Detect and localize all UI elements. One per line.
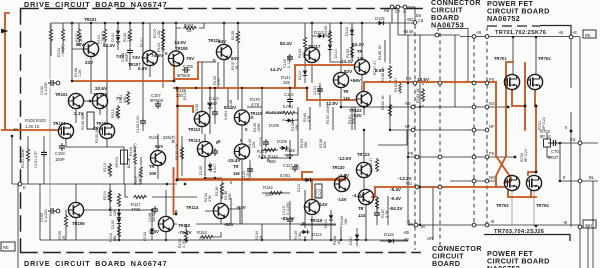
wire R128 col <box>185 224 187 243</box>
resistor R151 <box>183 26 197 29</box>
pin C102 <box>56 81 60 85</box>
capacitor C117 <box>292 164 298 172</box>
wire C117 row <box>290 167 300 169</box>
transistor TR122 <box>356 91 371 106</box>
svg-text:680: 680 <box>269 159 277 164</box>
wire D103 col <box>151 210 153 240</box>
fet board top dashed <box>487 25 540 27</box>
pin NG x440 <box>438 185 442 189</box>
svg-text:0.001: 0.001 <box>280 173 291 178</box>
svg-text:TR703: TR703 <box>496 203 509 208</box>
pin PS x474 <box>472 81 476 85</box>
resistor R143 <box>282 111 296 114</box>
diode D108 <box>286 118 295 122</box>
svg-text:R166 1K: R166 1K <box>381 67 385 82</box>
transistor TR101 <box>83 41 98 56</box>
svg-text:TR702: TR702 <box>538 56 551 61</box>
svg-text:56: 56 <box>421 224 426 229</box>
transistor TR112 <box>194 111 209 126</box>
wire E row y184 <box>12 183 177 185</box>
pin NS x413 <box>411 105 415 109</box>
wire R117 corner <box>125 184 197 197</box>
resistor R136 <box>220 182 223 196</box>
svg-text:D110: D110 <box>298 71 302 80</box>
svg-text:0: 0 <box>240 138 243 143</box>
svg-text:1K: 1K <box>259 235 263 240</box>
svg-text:23V: 23V <box>85 60 94 65</box>
svg-text:D115: D115 <box>324 219 328 228</box>
wire NG row orange <box>375 186 506 188</box>
resistor R167 <box>375 196 378 210</box>
svg-text:TR104: TR104 <box>53 121 66 126</box>
svg-text:TR117: TR117 <box>308 44 321 49</box>
wire R168 col <box>384 40 386 62</box>
wire TR107 leads <box>149 23 151 77</box>
svg-text:116: 116 <box>233 171 240 176</box>
svg-text:R102 R103: R102 R103 <box>25 118 46 123</box>
svg-text:R143 680: R143 680 <box>266 110 284 115</box>
resistor R101 <box>26 148 29 162</box>
svg-text:22: 22 <box>199 236 204 241</box>
wire TR101 leads <box>72 23 91 94</box>
svg-text:R142: R142 <box>263 185 274 190</box>
diode D105 <box>208 163 212 172</box>
svg-text:6P/500: 6P/500 <box>150 98 164 103</box>
svg-text:NA06752: NA06752 <box>487 264 520 268</box>
capacitor C116 <box>287 97 293 105</box>
diode D112 <box>317 34 326 38</box>
svg-text:5P 0.22: 5P 0.22 <box>542 117 546 130</box>
dashed col x440 <box>439 33 441 250</box>
wire pins col x405 <box>404 7 406 35</box>
svg-text:47K: 47K <box>307 115 311 122</box>
wire x525 col <box>524 63 526 130</box>
pin NS x474 <box>472 105 476 109</box>
wire pins col x392 <box>391 7 393 23</box>
wire R152 row <box>214 232 221 237</box>
svg-text:TR: TR <box>233 164 239 169</box>
diode D114 <box>328 43 332 52</box>
svg-text:5P/500: 5P/500 <box>177 73 191 78</box>
svg-text:R167 47: R167 47 <box>373 61 377 75</box>
wire TR115 col <box>241 88 243 224</box>
diode D115 <box>329 213 333 222</box>
svg-text:R136: R136 <box>215 187 219 196</box>
capacitor C121 <box>317 86 323 94</box>
svg-text:0.15: 0.15 <box>246 173 250 180</box>
svg-text:TR703,704:2SJ26: TR703,704:2SJ26 <box>494 229 544 235</box>
svg-text:C105 0.01: C105 0.01 <box>136 115 140 133</box>
svg-text:+B: +B <box>476 30 481 35</box>
svg-text:R165 47: R165 47 <box>369 158 373 172</box>
svg-text:22K: 22K <box>113 209 117 216</box>
pin PS x487 <box>485 81 489 85</box>
wire TR110 collector branch <box>173 168 175 214</box>
resistor R113 <box>108 163 111 177</box>
wire x408 col <box>407 35 409 225</box>
wire TR103 col <box>100 44 107 123</box>
wire R145 col <box>297 107 299 130</box>
svg-text:R152: R152 <box>197 230 208 235</box>
svg-text:6.8(QF): 6.8(QF) <box>138 171 142 185</box>
wire gray col x50 <box>49 23 51 207</box>
resistor R116 <box>117 224 120 238</box>
svg-text:0: 0 <box>218 139 221 144</box>
svg-text:R164 1K: R164 1K <box>416 88 420 103</box>
transistor TR115 <box>234 110 249 125</box>
wire D104 col <box>209 88 211 134</box>
svg-text:NF: NF <box>405 124 411 129</box>
svg-text:RE: RE <box>585 33 591 38</box>
svg-text:82K: 82K <box>323 141 327 148</box>
svg-text:74.6V: 74.6V <box>151 53 164 58</box>
svg-text:100P: 100P <box>55 157 65 162</box>
resistor R155 <box>328 30 331 44</box>
svg-text:7.5K: 7.5K <box>298 232 302 240</box>
wire R167b col <box>387 196 389 225</box>
capacitor C103 <box>48 208 56 214</box>
trimmer VR101 <box>121 150 128 164</box>
pin E node <box>18 182 22 186</box>
wire x433 col <box>432 187 434 240</box>
resistor R104b <box>61 28 64 42</box>
svg-text:22K: 22K <box>123 96 127 103</box>
wire R110 col <box>104 23 106 44</box>
svg-text:R106 36K: R106 36K <box>81 113 85 130</box>
svg-text:22K: 22K <box>252 141 256 148</box>
wire C101 col <box>43 136 45 184</box>
wire R151 leads <box>176 23 204 28</box>
svg-text:TR108: TR108 <box>175 46 188 51</box>
wire x560 col <box>559 143 561 181</box>
wire NG row y181 <box>450 180 598 182</box>
resistor R162 <box>388 103 391 117</box>
wire TR117 leads <box>311 23 313 83</box>
svg-text:18K: 18K <box>115 111 119 118</box>
resistor box R148 <box>315 184 322 198</box>
wire TR702 top lead <box>535 37 537 74</box>
wire R136 col <box>221 178 223 199</box>
svg-text:5P 0.22: 5P 0.22 <box>524 149 528 162</box>
wire TR114 row y224 <box>196 223 336 225</box>
wire bottom rail y240 <box>40 239 408 241</box>
resistor R166 <box>388 65 391 79</box>
resistor R119 <box>140 166 143 179</box>
svg-text:7.5K(F): 7.5K(F) <box>61 44 65 57</box>
resistor R130 <box>180 146 183 160</box>
svg-text:84V: 84V <box>218 39 227 44</box>
transistor TR105 (FET) <box>99 123 114 138</box>
pin PS x415 <box>413 81 417 85</box>
pin NS x487 <box>485 105 489 109</box>
svg-text:82V: 82V <box>344 69 353 74</box>
svg-text:D105: D105 <box>199 166 203 175</box>
dashed col x415 <box>414 25 416 250</box>
dashed col x474 <box>473 38 475 224</box>
svg-text:0.047: 0.047 <box>213 163 217 173</box>
transistor TR107 <box>142 50 157 65</box>
pin NG x474 <box>472 179 476 183</box>
resistor R123 <box>162 39 165 52</box>
drive board bottom dashed border <box>21 252 420 254</box>
transistor TR701 (FET) <box>504 74 519 89</box>
transistor TR111 <box>216 44 231 59</box>
drive board left dashed border <box>20 9 22 252</box>
wire R164 col <box>422 83 424 107</box>
wire left col x12 <box>11 136 13 184</box>
pin +B x437 <box>435 33 439 37</box>
capacitor C109 <box>182 67 190 73</box>
resistor R159 <box>350 44 353 58</box>
svg-text:-4.4V: -4.4V <box>352 193 364 198</box>
wire NF row y130 <box>390 129 487 131</box>
capacitor C701 <box>551 140 559 146</box>
svg-text:D116: D116 <box>345 27 349 36</box>
svg-text:R146: R146 <box>229 100 233 109</box>
svg-text:10K: 10K <box>295 124 299 131</box>
pin +B x474 <box>472 35 476 39</box>
svg-text:D117: D117 <box>349 236 353 245</box>
capacitor C119 <box>287 216 293 224</box>
svg-text:R130 47K: R130 47K <box>175 143 179 160</box>
svg-text:-8.4V: -8.4V <box>390 187 402 192</box>
wire input left vertical <box>5 13 9 130</box>
wire R104 col <box>50 23 52 56</box>
svg-text:C115: C115 <box>259 137 263 146</box>
wire R135 col <box>237 23 239 100</box>
diode D117 <box>355 233 359 242</box>
svg-text:R168 1K: R168 1K <box>378 45 382 60</box>
svg-text:0.1/250: 0.1/250 <box>44 209 48 222</box>
svg-text:-84.3V: -84.3V <box>389 206 403 211</box>
svg-text:DRIVE CIRCUIT BOARD NA06747: DRIVE CIRCUIT BOARD NA06747 <box>24 259 167 268</box>
svg-text:NA06752: NA06752 <box>487 14 520 23</box>
svg-text:14.2V: 14.2V <box>270 67 283 72</box>
svg-text:-14V: -14V <box>318 202 329 207</box>
wire TR701 top lead <box>512 37 514 74</box>
svg-text:TR114: TR114 <box>186 205 199 210</box>
pin -B x416 <box>414 223 418 227</box>
svg-text:TR101: TR101 <box>84 17 97 22</box>
transistor TR121 <box>354 59 369 74</box>
resistor R107 <box>77 28 80 42</box>
resistor R153 <box>303 36 306 50</box>
pin PS2 x487 <box>485 155 489 159</box>
svg-text:C101 47P: C101 47P <box>34 151 38 168</box>
svg-text:TR704: TR704 <box>536 203 549 208</box>
svg-text:TR: TR <box>357 49 363 54</box>
svg-text:+E: +E <box>572 30 577 35</box>
capacitor C102 <box>48 80 56 86</box>
svg-text:TR701: TR701 <box>494 56 507 61</box>
wire TR123/TR124 col <box>364 130 366 240</box>
pin +B x571 <box>569 35 573 39</box>
resistor R122 <box>161 28 164 42</box>
svg-text:0.001: 0.001 <box>283 104 294 109</box>
diode D103 <box>150 227 154 236</box>
wire C110 col <box>214 88 216 124</box>
svg-text:TR120: TR120 <box>332 165 345 170</box>
capacitor C110 <box>212 109 218 117</box>
capacitor C112 <box>374 210 380 218</box>
wire D119 stub <box>380 240 408 242</box>
pin C2 <box>403 5 407 9</box>
svg-text:0: 0 <box>296 163 299 168</box>
wire C109 top link <box>198 61 216 63</box>
capacitor C101 <box>41 150 47 158</box>
capacitor C104 <box>59 143 65 151</box>
svg-text:0: 0 <box>213 58 216 63</box>
wire TR122 to PS rail <box>364 82 496 90</box>
diode D102 <box>117 211 121 220</box>
svg-text:PS: PS <box>408 151 414 156</box>
transistor TR116 <box>234 144 249 159</box>
capacitor C118 <box>287 54 293 62</box>
svg-text:TR110: TR110 <box>178 223 191 228</box>
pin PS2 x440 <box>438 155 442 159</box>
svg-text:0.001: 0.001 <box>224 110 228 120</box>
label RE box top right <box>583 30 596 38</box>
svg-text:74.6V: 74.6V <box>174 40 187 45</box>
wire step to TR122 <box>307 88 355 100</box>
svg-text:E: E <box>563 175 566 180</box>
svg-text:PS: PS <box>489 151 495 156</box>
svg-text:82.4V: 82.4V <box>280 41 293 46</box>
svg-text:-79.6V: -79.6V <box>178 230 192 235</box>
pin PS2 x417 <box>415 155 419 159</box>
svg-text:1.2K: 1.2K <box>78 69 82 77</box>
wire TR102-TR103 link <box>84 100 93 102</box>
svg-text:0.1/250: 0.1/250 <box>287 55 291 68</box>
svg-text:18.5V: 18.5V <box>417 77 430 82</box>
svg-text:C104: C104 <box>55 151 66 156</box>
svg-text:D102: D102 <box>111 220 115 229</box>
wire x143 col <box>142 23 144 131</box>
pin PS2 x474 <box>472 155 476 159</box>
wire top rail y23 <box>51 22 415 24</box>
wire 0.001 col <box>227 88 229 107</box>
svg-text:1.2K: 1.2K <box>79 34 83 42</box>
svg-text:3.3K(F): 3.3K(F) <box>133 143 137 156</box>
wire signal rail y81 <box>72 80 174 82</box>
wire D115 col <box>330 210 332 240</box>
transistor TR102 <box>68 93 83 108</box>
svg-text:10K: 10K <box>344 218 348 225</box>
svg-text:0: 0 <box>175 209 178 214</box>
wire R120 col <box>129 23 131 70</box>
resistor R105 <box>64 214 67 228</box>
svg-text:TR701,702:2SK76: TR701,702:2SK76 <box>495 30 546 36</box>
wire x468 col <box>467 31 469 83</box>
svg-text:14.2V: 14.2V <box>341 59 354 64</box>
diode D110 <box>303 69 307 78</box>
svg-text:-B: -B <box>490 219 494 224</box>
svg-text:-84V: -84V <box>224 222 235 227</box>
svg-text:-B: -B <box>406 219 410 224</box>
svg-text:18K: 18K <box>113 235 117 242</box>
resistor box R703 <box>544 139 551 147</box>
wire TR118 leads <box>311 216 313 240</box>
transistor TR104 (FET) <box>58 123 73 138</box>
wire D112 row <box>312 35 330 37</box>
wire C116 col <box>289 88 291 158</box>
wire TR113 col <box>204 134 206 176</box>
svg-text:10K: 10K <box>286 153 294 158</box>
resistor box R106 <box>87 112 94 129</box>
resistor R114 <box>108 189 111 203</box>
wire PS row y157 <box>408 156 515 158</box>
wire TR124 to NG <box>372 187 375 197</box>
svg-text:C8: C8 <box>418 18 424 23</box>
transistor TR113 <box>197 141 212 156</box>
svg-text:35K: 35K <box>304 141 308 148</box>
wire D102 col <box>118 210 120 240</box>
svg-text:0.1/250: 0.1/250 <box>44 82 48 95</box>
svg-text:D114: D114 <box>334 49 338 58</box>
transistor TR704 (FET) <box>526 175 541 190</box>
wire D108 row <box>282 119 298 121</box>
wire branch to TR121 base <box>295 65 354 88</box>
transistor TR124 <box>358 189 373 204</box>
resistor R110 <box>103 28 106 42</box>
transistor TR114 <box>213 203 228 218</box>
pin -B x487 <box>485 223 489 227</box>
diode D111 <box>304 178 313 182</box>
wire junction row y158 <box>262 157 290 159</box>
wire x420 col <box>419 35 421 225</box>
wire x218 col <box>217 62 219 88</box>
wire pins col x398 <box>397 7 399 35</box>
wire TR121/TR122 col <box>362 23 364 115</box>
wire R118 col <box>134 147 136 184</box>
svg-text:C117: C117 <box>283 163 293 168</box>
resistor R104 <box>49 28 52 42</box>
svg-text:0.6V: 0.6V <box>138 66 148 71</box>
svg-text:+B 56: +B 56 <box>403 29 414 34</box>
wire D105/C111 row <box>205 177 222 179</box>
svg-text:R109 39K: R109 39K <box>95 126 99 143</box>
svg-text:R131: R131 <box>183 91 187 100</box>
svg-text:TR: TR <box>149 164 155 169</box>
wire x377 col <box>376 196 378 225</box>
svg-text:+56V: +56V <box>350 78 362 83</box>
svg-text:NG: NG <box>489 175 495 180</box>
svg-text:WH: WH <box>585 223 592 228</box>
svg-text:PS: PS <box>406 76 412 81</box>
diode D119 <box>387 239 396 243</box>
wire R166 col <box>389 23 391 130</box>
svg-text:+B2: +B2 <box>406 17 414 22</box>
svg-text:BL: BL <box>589 175 595 180</box>
svg-text:4.7K: 4.7K <box>251 102 260 107</box>
wire R113 col <box>109 184 111 210</box>
wire x536 col <box>528 106 536 175</box>
svg-text:N5: N5 <box>384 8 390 13</box>
svg-text:0.047: 0.047 <box>548 155 559 160</box>
svg-text:TR 103: TR 103 <box>93 92 107 97</box>
pin NG x487 <box>485 179 489 183</box>
wire R130 col <box>181 136 183 176</box>
svg-text:DRIVE CIRCUIT BOARD NA06747: DRIVE CIRCUIT BOARD NA06747 <box>24 0 167 9</box>
svg-text:D111: D111 <box>297 183 301 192</box>
diode D109 <box>280 146 289 150</box>
diode D104 <box>208 101 212 110</box>
resistor R135 <box>236 30 239 44</box>
wire D116 col <box>351 26 353 44</box>
transistor TR120 <box>334 176 349 191</box>
svg-text:76V: 76V <box>186 56 195 61</box>
svg-text:D101: D101 <box>111 33 115 42</box>
